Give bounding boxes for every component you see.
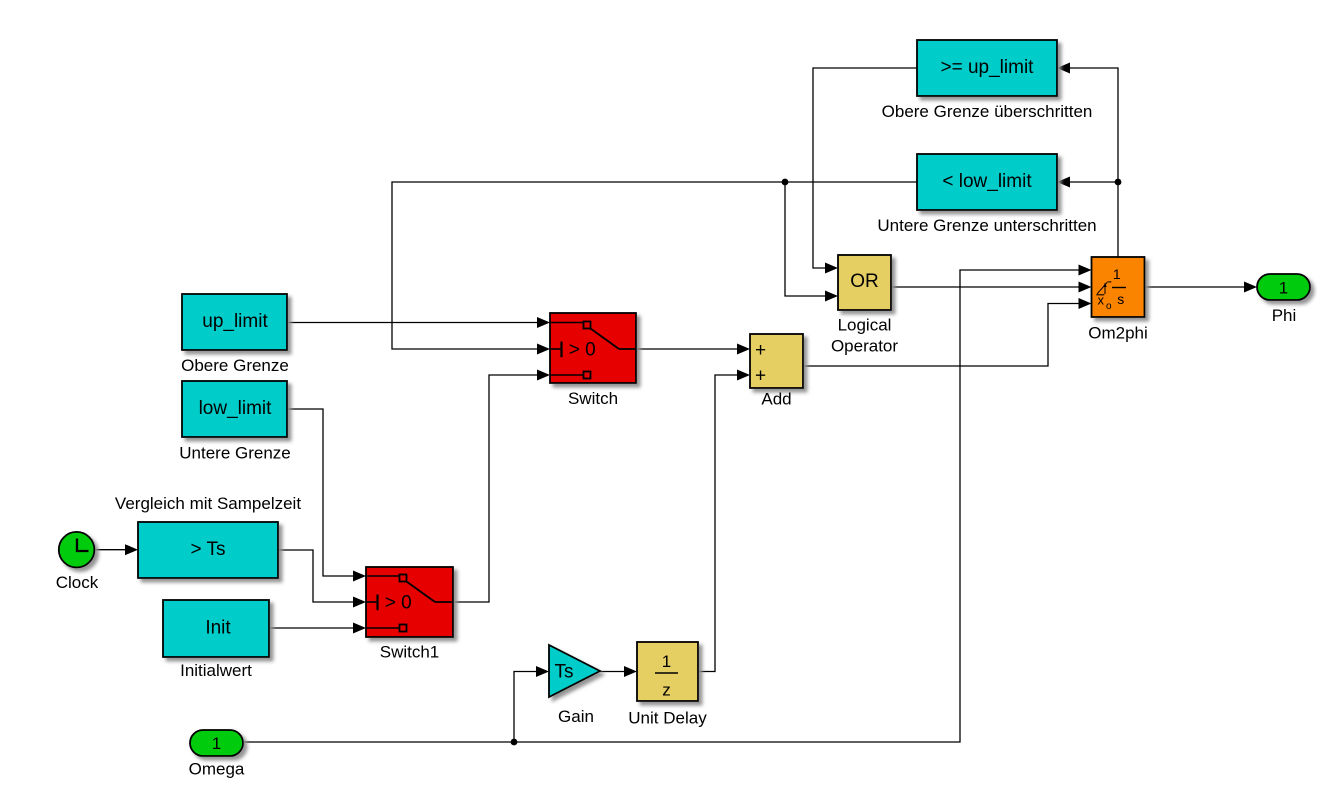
svg-text:Init: Init — [205, 617, 231, 638]
svg-text:OR: OR — [850, 271, 879, 292]
svg-text:1: 1 — [1113, 266, 1121, 282]
wire Om2phi to Phi — [1145, 286, 1246, 288]
block Switch — [550, 313, 636, 383]
block Switch1 — [366, 567, 453, 637]
svg-text:Logical: Logical — [838, 316, 892, 335]
svg-text:Untere Grenze unterschritten: Untere Grenze unterschritten — [877, 216, 1096, 235]
block Compare > Ts — [138, 522, 278, 578]
svg-text:Omega: Omega — [189, 760, 245, 779]
block Gain Ts — [549, 645, 600, 697]
svg-text:Initialwert: Initialwert — [180, 661, 252, 680]
wire Clock to >Ts — [95, 549, 127, 551]
wire up_limit to Switch in1 — [287, 322, 538, 324]
block Constant low_limit — [182, 381, 287, 437]
block Inport Omega — [190, 730, 243, 756]
wire state-port feedback — [1070, 68, 1118, 257]
svg-text:> 0: > 0 — [569, 340, 596, 361]
svg-text:o: o — [1106, 301, 1112, 312]
wire Switch1 out to Switch in3 — [453, 375, 538, 602]
svg-text:1: 1 — [212, 734, 221, 753]
svg-text:low_limit: low_limit — [199, 398, 273, 419]
svg-text:Unit Delay: Unit Delay — [628, 709, 707, 728]
wire Omega net — [243, 270, 1079, 742]
wire low_limit to Switch1 in1 — [287, 409, 354, 576]
block Outport Phi — [1257, 274, 1310, 300]
wire >Ts to Switch1 in2 — [278, 550, 354, 602]
svg-text:Ts: Ts — [555, 662, 574, 683]
block Integrator Om2phi — [1092, 257, 1145, 317]
wire OR out to Om2phi in2 — [891, 286, 1079, 288]
block Clock — [59, 532, 95, 568]
svg-text:up_limit: up_limit — [202, 311, 268, 332]
svg-text:+: + — [755, 340, 766, 361]
svg-text:>= up_limit: >= up_limit — [941, 57, 1035, 78]
svg-text:Untere Grenze: Untere Grenze — [179, 444, 291, 463]
wire compare-up output to OR in1 — [813, 68, 917, 268]
wire Init to Switch1 in3 — [269, 627, 354, 629]
arrow Switch1 in1 — [353, 571, 366, 582]
svg-text:Gain: Gain — [558, 707, 594, 726]
wire Add out to Om2phi in3 — [803, 304, 1079, 367]
block Constant Init — [163, 600, 269, 657]
svg-text:Vergleich mit Sampelzeit: Vergleich mit Sampelzeit — [115, 494, 301, 513]
wire compare-low output net — [392, 182, 917, 349]
svg-text:+: + — [755, 365, 766, 386]
svg-text:Switch1: Switch1 — [380, 643, 440, 662]
junction dot — [511, 739, 518, 746]
svg-text:Obere Grenze: Obere Grenze — [181, 356, 289, 375]
svg-text:1: 1 — [662, 652, 671, 671]
svg-text:Om2phi: Om2phi — [1088, 324, 1148, 343]
svg-text:Operator: Operator — [831, 337, 898, 356]
block UnitDelay — [637, 642, 698, 701]
block Constant up_limit — [182, 294, 287, 350]
wire UnitDelay out to Add in2 — [698, 375, 738, 672]
block Add — [750, 334, 803, 388]
svg-text:Obere Grenze überschritten: Obere Grenze überschritten — [882, 102, 1093, 121]
svg-text:Switch: Switch — [568, 389, 618, 408]
svg-text:< low_limit: < low_limit — [942, 171, 1032, 192]
svg-text:Clock: Clock — [56, 573, 99, 592]
junction dot — [782, 179, 789, 186]
block Logical Operator OR — [838, 255, 891, 310]
block CompareToConstant < low_limit — [917, 154, 1057, 210]
junction dot — [1115, 179, 1122, 186]
svg-text:s: s — [1117, 291, 1124, 307]
svg-text:z: z — [662, 681, 671, 700]
svg-text:Phi: Phi — [1272, 306, 1297, 325]
block CompareToConstant >= up_limit — [917, 40, 1057, 96]
svg-text:> Ts: > Ts — [190, 539, 225, 560]
svg-text:1: 1 — [1279, 279, 1288, 298]
wire Switch out to Add in1 — [636, 348, 738, 350]
svg-text:> 0: > 0 — [385, 593, 412, 614]
svg-text:Add: Add — [761, 390, 791, 409]
wire Gain to UnitDelay — [600, 671, 625, 673]
